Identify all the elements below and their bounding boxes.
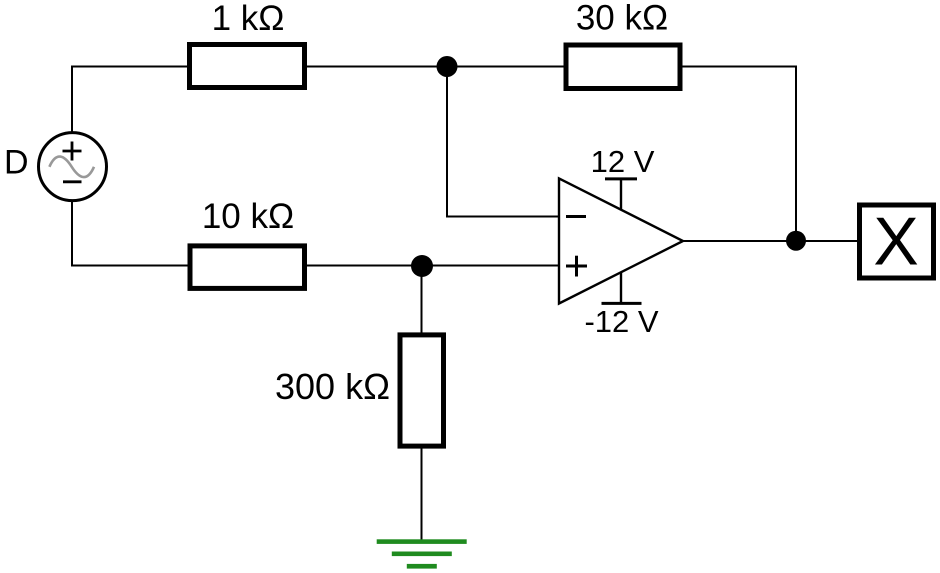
- wire node B to R4: [421, 266, 423, 336]
- svg-text:12 V: 12 V: [591, 144, 655, 179]
- junction node A: [437, 56, 458, 77]
- svg-text:D: D: [4, 144, 29, 182]
- junction node B: [411, 255, 433, 277]
- wire node A to op-amp inverting input: [447, 67, 559, 217]
- svg-text:1 kΩ: 1 kΩ: [212, 0, 285, 38]
- resistor R2: [566, 45, 680, 89]
- wire node A to R2: [447, 66, 566, 68]
- junction node C: [786, 231, 806, 251]
- op-amp positive supply +12 V: [591, 144, 655, 210]
- wire R4 to ground: [421, 446, 423, 542]
- wire node C to output port X: [796, 240, 857, 242]
- wire node B to op-amp non-inverting input: [422, 265, 559, 267]
- wire R2 to node C (feedback): [682, 67, 796, 241]
- svg-text:-12 V: -12 V: [584, 304, 658, 339]
- ground: [377, 539, 467, 568]
- svg-text:300 kΩ: 300 kΩ: [275, 366, 390, 407]
- op-amp negative supply -12 V: [584, 272, 658, 339]
- wire R3 to node B: [307, 265, 422, 267]
- resistor R4: [400, 335, 444, 446]
- wire R1 to node A: [307, 66, 447, 68]
- op-amp U1: [559, 178, 683, 303]
- resistor R1: [190, 45, 305, 88]
- wire source top to top rail: [72, 67, 188, 134]
- output port X: [860, 203, 934, 279]
- voltage source D: [39, 133, 107, 201]
- resistor R3: [190, 246, 305, 289]
- svg-text:10 kΩ: 10 kΩ: [202, 197, 294, 236]
- wire op-amp output to node C: [683, 240, 796, 242]
- wire source bottom to R3: [72, 200, 190, 266]
- svg-text:30 kΩ: 30 kΩ: [576, 0, 668, 38]
- svg-text:X: X: [873, 203, 918, 279]
